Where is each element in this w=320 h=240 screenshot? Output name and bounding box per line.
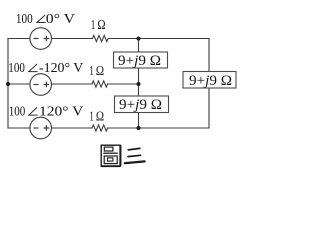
- wire row2 right: resistor R2 to mid junction: [108, 83, 139, 85]
- impedance box Z1: [114, 52, 168, 69]
- wire row1 mid: source V1 to resistor R1: [52, 38, 93, 40]
- label source V2 value 100&#8736;-120&#176; V: [8, 60, 83, 75]
- resistor R1 zigzag: [93, 35, 109, 41]
- wire mid branch: box Z2 bottom to row3 junction: [138, 113, 140, 129]
- wire row3 mid: source V3 to resistor R3: [52, 127, 93, 129]
- wire left bus vertical: [7, 39, 9, 129]
- svg-text:100: 100: [8, 60, 25, 75]
- impedance box Z3: [183, 72, 236, 90]
- resistor R2 zigzag: [92, 81, 108, 87]
- impedance box Z2: [115, 96, 169, 113]
- caption figure-3 glyph SAN (drawn): [125, 148, 145, 163]
- label source V1 value 100&#8736;0&#176; V: [16, 11, 75, 26]
- svg-text:0° V: 0° V: [46, 11, 75, 26]
- voltage source V3: [30, 117, 52, 139]
- wire row2 mid: source V2 to resistor R2: [52, 83, 93, 85]
- wire row1 left: bus to source V1: [8, 38, 30, 40]
- wire mid branch: row1 junction down to box Z1: [138, 39, 140, 53]
- wire row1 right: resistor R1 to top-right corner: [108, 38, 209, 40]
- junction dot left bus row2: [6, 82, 10, 86]
- svg-text:Ω: Ω: [96, 110, 104, 125]
- wire row2 left: bus to source V2: [8, 83, 30, 85]
- svg-text:Ω: Ω: [97, 18, 105, 33]
- svg-text:100: 100: [9, 104, 26, 119]
- svg-text:-120° V: -120° V: [39, 60, 83, 75]
- voltage source V2: [30, 74, 52, 96]
- svg-text:9+j9 Ω: 9+j9 Ω: [118, 53, 161, 69]
- junction dot row2 mid branch: [137, 82, 141, 86]
- svg-text:1: 1: [89, 110, 93, 125]
- wire row3 right: resistor R3 to bottom-right corner: [108, 127, 209, 129]
- wire mid branch: box Z1 bottom to row2 junction to box Z2 top: [138, 68, 140, 96]
- svg-text:1: 1: [91, 18, 95, 33]
- svg-text:120° V: 120° V: [39, 104, 83, 119]
- voltage source V1: [30, 28, 52, 50]
- wire right riser: corner down to row3: [208, 39, 210, 129]
- junction dot row1 mid branch: [137, 37, 141, 41]
- svg-text:9+j9 Ω: 9+j9 Ω: [119, 97, 162, 113]
- resistor R3 zigzag: [92, 125, 108, 131]
- label source V3 value 100&#8736;120&#176; V: [9, 104, 84, 119]
- svg-text:100: 100: [16, 11, 33, 26]
- wire row3 left: bus to source V3: [8, 127, 30, 129]
- svg-text:9+j9 Ω: 9+j9 Ω: [189, 73, 232, 89]
- svg-text:Ω: Ω: [96, 64, 104, 79]
- svg-text:1: 1: [89, 64, 93, 79]
- junction dot row3 mid branch: [137, 126, 141, 130]
- caption figure-3 glyph TU (drawn): [101, 145, 120, 166]
